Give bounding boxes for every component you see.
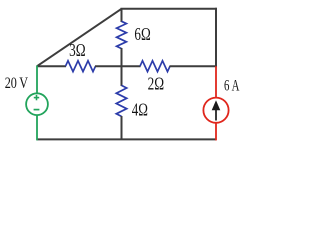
wire: green from voltage source down to bottom-left corner xyxy=(36,115,38,140)
wire: 6-ohm resistor down to node C xyxy=(121,48,123,67)
wire: red from current source to bottom-right corner xyxy=(215,123,217,141)
wire: node B down to 6-ohm resistor xyxy=(121,9,123,22)
voltage source plus sign xyxy=(34,97,39,99)
wire: node C down to 4-ohm resistor xyxy=(121,66,123,87)
wire: middle horizontal, node C to 2-ohm resistor xyxy=(122,65,141,67)
wire: right vertical from top-right corner to node D xyxy=(215,8,217,66)
resistor 4ohm zigzag xyxy=(116,85,126,116)
svg-text:4Ω: 4Ω xyxy=(132,99,148,119)
wire: middle horizontal, 3-ohm to node C xyxy=(95,65,122,67)
resistor 2ohm zigzag xyxy=(140,61,170,72)
wire: middle horizontal, node A to 3-ohm resistor xyxy=(37,65,66,67)
wire: top horizontal from node B to top-right corner xyxy=(121,8,218,10)
svg-text:20 V: 20 V xyxy=(5,75,29,92)
svg-text:3Ω: 3Ω xyxy=(69,40,86,60)
resistor 6ohm zigzag xyxy=(117,21,127,48)
current source arrow xyxy=(215,106,217,121)
voltage source minus sign xyxy=(34,109,40,111)
svg-text:6Ω: 6Ω xyxy=(134,24,150,44)
current source I1 circle 6A xyxy=(203,98,228,123)
voltage source V1 circle 20V xyxy=(26,93,48,115)
svg-text:6 A: 6 A xyxy=(224,78,240,95)
svg-text:2Ω: 2Ω xyxy=(148,74,165,94)
wire: diagonal from node A to top node B xyxy=(37,9,122,66)
resistor 3ohm zigzag xyxy=(66,61,96,72)
wire: 4-ohm resistor down to bottom node xyxy=(121,116,123,140)
wire: green from node A down to voltage source xyxy=(36,66,38,94)
wire: red from node D down to current source xyxy=(215,66,217,98)
wire: middle horizontal, 2-ohm to node D xyxy=(170,65,218,67)
wire: bottom horizontal xyxy=(37,138,216,140)
